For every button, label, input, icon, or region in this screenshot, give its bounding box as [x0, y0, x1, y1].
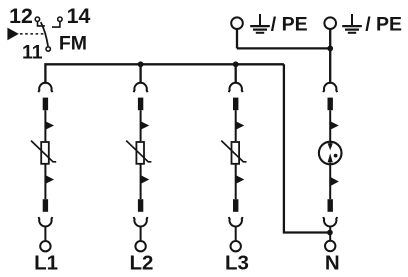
- plug pin top L1: [43, 98, 48, 111]
- socket top N: [323, 83, 337, 92]
- junction N node: [327, 230, 333, 236]
- FM contact terminal 12: [35, 17, 45, 26]
- socket top L3: [229, 83, 243, 92]
- disconnect flag bottom N: [330, 177, 339, 186]
- disconnect flag top L1: [45, 121, 54, 129]
- socket bottom L1: [39, 217, 53, 226]
- wire L2 mid lower: [140, 164, 142, 199]
- wire L2 mid upper: [140, 110, 142, 141]
- varistor L3: [221, 141, 246, 164]
- terminal circle N: [325, 241, 335, 251]
- svg-text:N: N: [325, 252, 340, 275]
- varistor L2: [126, 141, 151, 164]
- wire L3 to terminal: [235, 226, 237, 241]
- socket bottom L2: [134, 217, 148, 226]
- wire L1 mid upper: [44, 110, 46, 141]
- socket bottom L3: [229, 217, 243, 226]
- wire stub L2: [139, 64, 141, 83]
- wire L1 mid lower: [44, 164, 46, 199]
- plug pin top L2: [138, 98, 143, 111]
- varistor L1: [31, 141, 56, 164]
- wire bus to N node: [284, 64, 330, 232]
- svg-text:14: 14: [67, 4, 91, 28]
- dashed actuation line: [20, 33, 45, 35]
- FM status indicator arrow: [7, 28, 18, 41]
- wire L2 to terminal: [140, 226, 142, 241]
- wire L3 mid upper: [235, 110, 237, 141]
- terminal circle L1: [40, 241, 50, 251]
- plug pin top N: [328, 98, 333, 111]
- PE terminal 2: [324, 17, 336, 29]
- wire PE1 down: [236, 29, 238, 49]
- ground symbol 1: [250, 14, 270, 33]
- disconnect flag top N: [330, 121, 339, 129]
- junction PE/N: [327, 46, 333, 52]
- svg-text:/ PE: / PE: [271, 14, 308, 36]
- svg-text:L3: L3: [225, 252, 249, 275]
- disconnect flag bottom L3: [236, 175, 245, 184]
- wire N to terminal: [329, 226, 331, 241]
- FM contact terminal 14: [52, 17, 62, 27]
- wire N mid lower: [329, 163, 331, 200]
- svg-text:L1: L1: [34, 252, 58, 275]
- plug pin bottom L2: [138, 199, 143, 212]
- svg-text:11: 11: [22, 41, 43, 63]
- wire PE2 down to N branch: [329, 29, 331, 84]
- wire L bus: [45, 64, 284, 83]
- socket top L2: [134, 83, 148, 92]
- plug pin bottom L1: [43, 199, 48, 212]
- ground symbol 2: [342, 14, 362, 33]
- wire L3 mid lower: [235, 164, 237, 199]
- gas discharge tube N-PE: [319, 142, 342, 165]
- svg-text:/ PE: / PE: [365, 14, 402, 36]
- FM contact moving lever: [41, 22, 48, 46]
- disconnect flag top L3: [236, 121, 245, 129]
- disconnect flag bottom L1: [45, 175, 54, 184]
- wire L1 to terminal: [44, 226, 46, 241]
- junction bus L2: [138, 61, 144, 67]
- wire PE link: [237, 47, 330, 49]
- wire stub L3: [235, 64, 237, 83]
- disconnect flag top L2: [141, 121, 150, 129]
- wire N mid upper: [329, 110, 331, 143]
- plug pin top L3: [233, 98, 238, 111]
- svg-text:12: 12: [9, 4, 33, 28]
- terminal circle L3: [231, 241, 241, 251]
- disconnect flag bottom L2: [141, 175, 150, 184]
- socket bottom N: [323, 217, 337, 226]
- svg-text:FM: FM: [59, 33, 87, 55]
- plug pin bottom L3: [233, 199, 238, 212]
- terminal circle L2: [135, 241, 145, 251]
- socket top L1: [39, 83, 53, 92]
- junction bus L3: [233, 61, 239, 67]
- FM contact terminal 11: [46, 47, 50, 51]
- PE terminal 1: [231, 17, 243, 29]
- svg-text:L2: L2: [130, 252, 154, 275]
- plug pin bottom N: [328, 199, 333, 212]
